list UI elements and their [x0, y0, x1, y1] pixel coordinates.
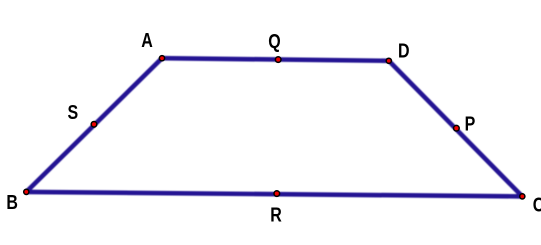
node P midpoint of DC — [454, 125, 460, 131]
node B vertex point — [24, 189, 29, 194]
wire side AD (top) — [162, 58, 389, 61]
node R midpoint of BC — [274, 191, 280, 197]
label B — [6, 191, 18, 213]
node Q midpoint of AD — [275, 57, 281, 63]
label C — [533, 194, 541, 216]
wire side DC (right) — [389, 61, 523, 197]
node S midpoint of AB — [91, 122, 97, 128]
node D vertex point — [386, 58, 391, 63]
wire side AB (left) — [26, 58, 162, 192]
svg-text:D: D — [398, 40, 410, 62]
svg-text:S: S — [67, 101, 78, 123]
wire side BC (bottom) — [26, 192, 522, 197]
svg-text:P: P — [465, 113, 476, 135]
svg-text:A: A — [141, 30, 153, 52]
label Q — [268, 30, 280, 52]
label R — [270, 204, 282, 226]
node A vertex point — [159, 56, 164, 61]
svg-text:R: R — [270, 204, 282, 226]
label S — [67, 101, 78, 123]
label A — [141, 30, 153, 52]
svg-text:B: B — [6, 191, 18, 213]
node C vertex point — [520, 194, 525, 199]
label P — [465, 113, 476, 135]
svg-text:C: C — [533, 194, 541, 216]
svg-text:Q: Q — [268, 30, 280, 52]
label D — [398, 40, 410, 62]
